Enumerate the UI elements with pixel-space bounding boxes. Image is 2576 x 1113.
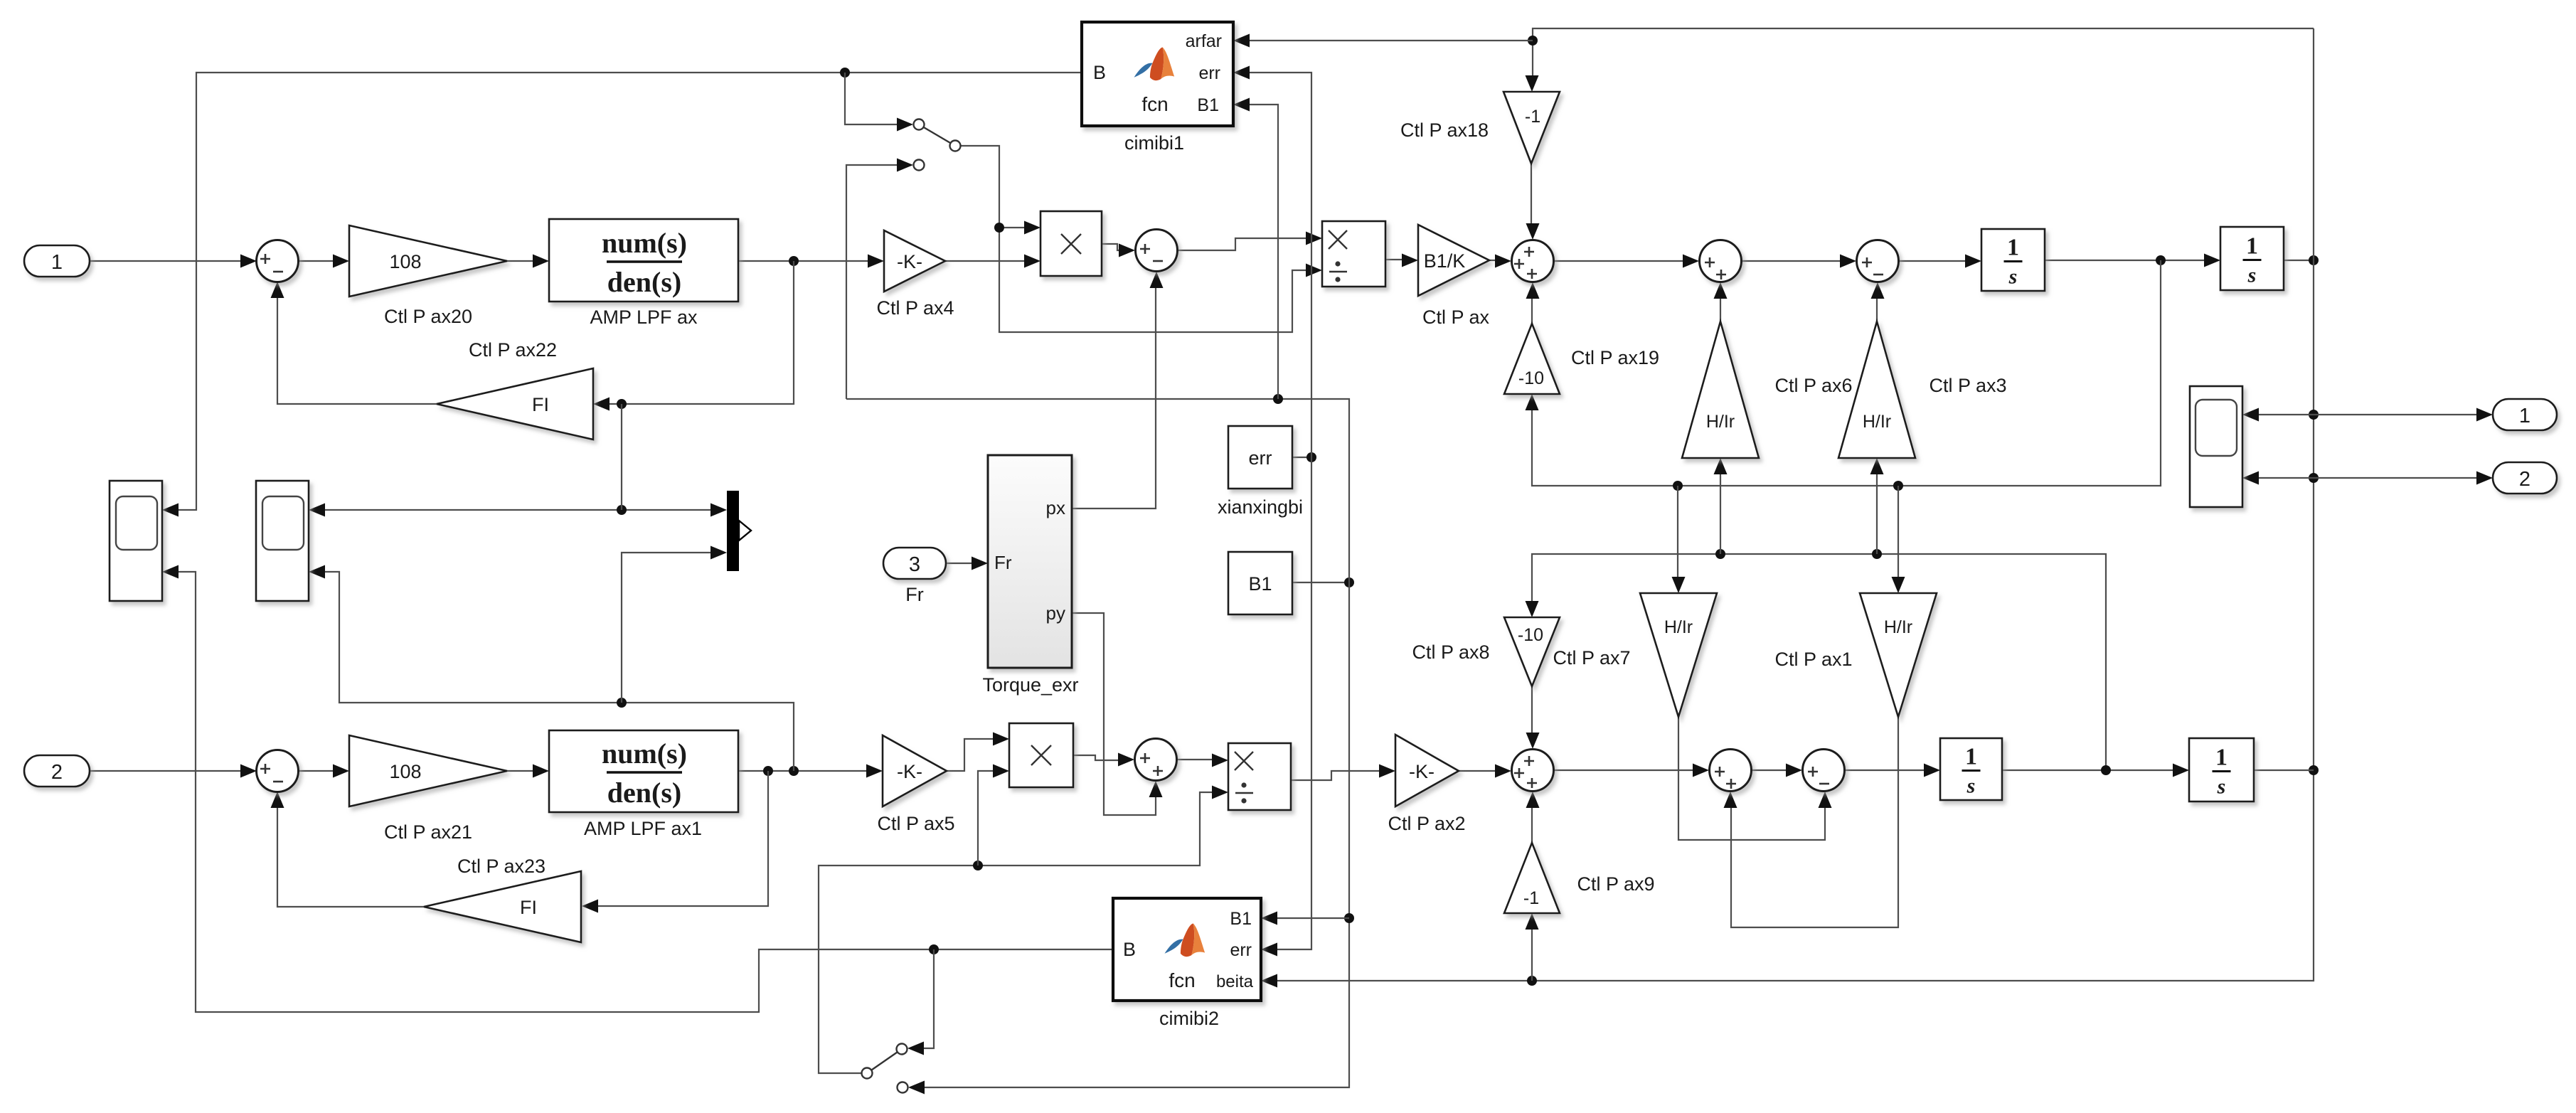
wire integrator I4 output to bus [2254,769,2314,771]
sum S3 [1135,739,1177,781]
svg-text:s: s [1966,774,1976,798]
wire divide X1 to gain B1/K [1385,259,1402,260]
inport 2 [24,755,90,787]
wire top feedback line to arfar and gain ax18 [1533,28,2314,75]
wire B2 net scope1 input2, cimibi2 B, switch2 input1 [179,572,1113,1012]
svg-text:Ctl P ax21: Ctl P ax21 [384,821,472,843]
transfer fcn AMP LPF ax1 [549,730,738,812]
gain H/Ir Ctl P ax7 [1640,593,1717,717]
manual switch SW1 [914,119,961,171]
outport 1 [2493,399,2557,430]
svg-text:Ctl P ax3: Ctl P ax3 [1929,375,2006,396]
wire sum S1 to gain Ctl P ax20 [298,260,333,262]
goto B1 [1228,552,1292,614]
svg-text:-K-: -K- [897,251,922,272]
sum S1 [257,240,299,282]
sum S6 [1710,750,1752,792]
wire integrator I1 to integrator I2, junction x3038 [2045,260,2204,261]
wire divide X2 to gain ax2 [1291,771,1379,780]
wire B line to cimibi1 B input and scope1 input1 [179,73,1082,510]
svg-text:Ctl P ax8: Ctl P ax8 [1412,641,1489,663]
svg-text:fcn: fcn [1141,93,1168,115]
scope1 [110,481,162,601]
svg-text:py: py [1046,602,1065,624]
integrator I4 1/s [2189,738,2254,802]
svg-text:AMP LPF ax1: AMP LPF ax1 [584,818,702,839]
svg-text:Ctl P ax1: Ctl P ax1 [1774,649,1852,670]
svg-text:Ctl P ax4: Ctl P ax4 [876,297,954,319]
wire switch2 output to product M2 input2 and divide X2 [819,792,1212,1073]
gain Ctl P ax4 [884,230,945,292]
wire gain ax2 to sum S5 [1459,770,1495,772]
svg-text:2: 2 [51,761,63,784]
gain H/Ir Ctl P ax3 [1838,321,1915,458]
sum S2 [1136,230,1178,272]
wire sum S2 to divide X1 X input [1178,238,1306,250]
wire sum S6 to sum S7 [1752,769,1786,771]
wire gain ax18 to sum SB top [1531,164,1532,223]
wire B line to switch1 input1 [845,73,897,124]
wire gain ax20 to AMP LPF ax [507,260,533,262]
svg-text:num(s): num(s) [602,737,687,769]
integrator I2 1/s [2220,227,2284,290]
svg-text:Fr: Fr [905,584,923,605]
gain Ctl P ax2 [1395,735,1459,806]
MATLAB function cimibi2 [1113,898,1261,1001]
svg-text:s: s [2217,775,2226,799]
sum SC [1700,240,1742,282]
gain Ctl P ax5 [883,735,947,806]
svg-text:fcn: fcn [1169,969,1195,991]
wire sum SB to sum SC [1554,260,1683,262]
wire product M1 to sum S2 [1102,244,1119,250]
wire line A top velocity to gain ax19 input [1532,260,2161,486]
svg-text:B1: B1 [1197,95,1219,115]
wire right bus vertical with beita feedback [1277,28,2314,981]
svg-text:H/Ir: H/Ir [1884,617,1912,637]
wire feedback to FI gain ax23 [598,771,768,906]
gain Ctl P ax20 value 108 [349,225,507,297]
wire feedback to FI gain ax22 [610,261,794,404]
svg-text:1: 1 [2007,235,2019,261]
scope2 [256,481,309,601]
wire line A to H/Ir ax1 [1898,486,1899,577]
wire H/Ir ax6 output to sum SC bottom [1720,299,1721,321]
svg-text:Ctl P ax18: Ctl P ax18 [1400,119,1489,141]
svg-text:cimibi1: cimibi1 [1124,132,1184,154]
svg-text:B: B [1123,939,1136,960]
svg-text:beita: beita [1216,972,1254,991]
wire switch1 output to divide X1 and product M1 input1 [960,146,1306,332]
svg-text:2: 2 [2519,468,2530,491]
divide X1 [1322,221,1385,287]
svg-text:108: 108 [389,761,421,782]
inport 3 Fr [883,548,946,579]
wire product M2 to sum S3 [1073,755,1118,760]
svg-text:Ctl P ax: Ctl P ax [1422,307,1490,328]
svg-text:FI: FI [520,897,537,918]
integrator I3 1/s [1940,738,2002,800]
svg-text:H/Ir: H/Ir [1706,412,1735,432]
gain FI Ctl P ax23 [424,871,581,942]
svg-text:Ctl P ax20: Ctl P ax20 [384,306,472,327]
wire line B bottom velocity to gain ax8 input [1532,554,2106,770]
svg-text:Ctl P ax6: Ctl P ax6 [1774,375,1852,396]
svg-text:1: 1 [2519,405,2530,427]
product M1 [1040,211,1102,276]
svg-text:num(s): num(s) [602,227,687,259]
svg-text:3: 3 [909,553,920,576]
inport 1 [24,245,90,277]
svg-text:cimibi2: cimibi2 [1159,1008,1219,1029]
wire gain ax8 to sum S5 top [1531,686,1533,733]
svg-text:xianxingbi: xianxingbi [1218,496,1303,518]
svg-text:AMP LPF ax: AMP LPF ax [590,307,698,328]
svg-text:Ctl P ax19: Ctl P ax19 [1571,347,1659,368]
wire sum S7 to integrator I3 [1845,769,1924,771]
svg-text:arfar: arfar [1186,31,1222,51]
svg-text:-K-: -K- [897,761,922,782]
wire line B to H/Ir ax3 [1876,474,1878,554]
sum S4 [257,750,299,792]
wire AMP LPF ax output to gain ax4, junction at x1116 [738,260,868,262]
svg-text:B: B [1093,62,1106,83]
svg-text:Ctl P ax22: Ctl P ax22 [469,339,557,361]
wire H/Ir ax7 output to sum S7 bottom [1678,717,1825,840]
svg-text:s: s [2247,264,2257,287]
svg-text:1: 1 [1965,744,1977,770]
goto err xianxingbi [1228,426,1292,489]
svg-text:1: 1 [51,251,63,274]
svg-text:px: px [1046,497,1065,518]
wire inport2 to sum S4 [90,770,240,772]
wire AMP LPF ax1 branch to scope2 input2 [325,572,794,771]
svg-text:H/Ir: H/Ir [1664,617,1693,637]
MATLAB function cimibi1 [1082,22,1233,126]
wire sum S5 to sum S6 [1554,769,1693,771]
manual switch SW2 [862,1044,908,1093]
wire beita line to gain ax9 input [1531,930,1533,981]
svg-text:Ctl P ax9: Ctl P ax9 [1577,873,1654,895]
svg-text:den(s): den(s) [607,777,681,809]
svg-text:err: err [1249,447,1272,469]
svg-text:Fr: Fr [994,552,1012,573]
wire err block to cimibi1 err and cimibi2 err [1292,457,1311,458]
svg-text:FI: FI [532,394,549,415]
svg-text:s: s [2008,265,2018,289]
wire gain B1/K to sum SB [1489,260,1495,261]
svg-text:err: err [1230,940,1252,960]
wire integrator I3 to integrator I4, junction x2961 [2002,769,2173,771]
wire sum S4 to gain ax21 [298,770,333,772]
wire H/Ir ax1 output to sum S6 bottom [1731,717,1898,927]
wire gain ax4 output to product M1 input2 [945,260,1024,262]
wire FI ax22 output to sum S1 bottom [277,298,437,404]
wire gain ax21 to AMP LPF ax1 [507,770,533,772]
wire scope3 input2 and outport2 [2259,477,2314,479]
svg-text:Ctl P ax7: Ctl P ax7 [1553,647,1630,669]
gain B1/K Ctl P ax [1418,225,1489,296]
wire sum S3 to divide X2 X input [1177,759,1212,760]
sum S5 [1512,750,1554,792]
svg-text:-K-: -K- [1409,761,1435,782]
gain Ctl P ax19 value -10 [1504,324,1560,394]
svg-text:err: err [1198,63,1220,83]
wire B1 block to B1 line, cimibi1 B1, cimibi2 B1, switch2 input2 [1292,582,1349,583]
subsystem Torque_exr [988,455,1072,668]
svg-text:-10: -10 [1518,625,1543,645]
wire gain ax9 to sum S5 bottom [1531,808,1533,843]
scope3 [2190,386,2242,507]
svg-text:1: 1 [2215,745,2228,771]
wire gain ax19 to sum SB bottom [1531,299,1533,324]
wire Torque_exr py to sum S3 bottom [1072,613,1156,815]
svg-text:Ctl P ax2: Ctl P ax2 [1388,813,1465,834]
gain FI Ctl P ax22 [437,368,593,440]
sum SD [1857,240,1899,282]
wire integrator I2 output to bus vertical [2284,260,2314,261]
wire H/Ir ax3 output to sum SD bottom [1876,299,1878,321]
svg-text:Ctl P ax23: Ctl P ax23 [457,856,545,877]
wire inport1 to sum S1 [90,260,240,262]
wire line A to H/Ir ax7 [1677,486,1678,577]
integrator I1 1/s [1981,229,2045,291]
wire scope2 input1 to mux input1 [325,509,710,511]
mux [727,491,739,571]
svg-text:-1: -1 [1523,888,1539,908]
svg-text:1: 1 [2246,233,2258,260]
wire gain ax5 to product M2 input1 [947,739,993,771]
wire branch to mux input2 [622,553,710,703]
gain H/Ir Ctl P ax6 [1682,321,1759,458]
svg-text:-1: -1 [1525,107,1540,127]
wire arfar into cimibi1 [1249,40,1533,41]
svg-text:-10: -10 [1518,368,1544,388]
svg-text:H/Ir: H/Ir [1863,412,1891,432]
wire scope3 input1 and outport1 [2259,414,2314,415]
svg-text:Torque_exr: Torque_exr [982,674,1078,696]
wire sum SD to integrator I1 [1899,260,1965,262]
wire Torque_exr px to sum S2 bottom [1072,288,1156,508]
svg-text:B1: B1 [1248,573,1272,595]
wire inport3 Fr to Torque_exr [946,563,972,564]
transfer fcn AMP LPF ax [549,219,738,302]
sum SB [1512,240,1554,282]
gain Ctl P ax8 value -10 [1504,617,1560,686]
outport 2 [2493,462,2557,494]
svg-text:B1/K: B1/K [1424,250,1466,272]
divide X2 [1228,743,1291,810]
gain Ctl P ax18 value -1 [1503,92,1560,164]
gain Ctl P ax9 value -1 [1504,843,1560,913]
wire B1 line to switch1 input2 [846,165,897,399]
gain Ctl P ax21 value 108 [349,735,507,806]
svg-text:den(s): den(s) [607,266,681,298]
wire AMP LPF ax1 output to gain ax5 [738,770,866,772]
wire FI ax23 output to sum S4 bottom [277,808,424,907]
sum S7 [1803,750,1845,792]
gain H/Ir Ctl P ax1 [1860,593,1937,717]
svg-text:108: 108 [389,251,421,272]
wire line B to H/Ir ax6 [1720,474,1721,554]
wire sum SC to sum SD [1742,260,1840,262]
product M2 [1009,723,1073,787]
svg-text:Ctl P ax5: Ctl P ax5 [877,813,954,834]
svg-text:B1: B1 [1230,909,1252,929]
